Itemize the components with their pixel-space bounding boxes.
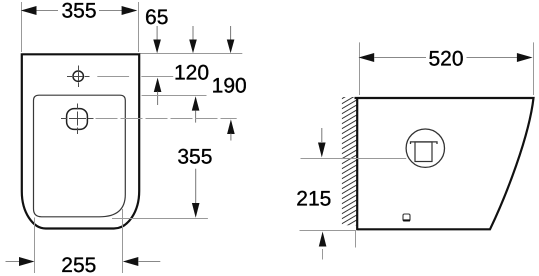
thin line extending right from top edge <box>140 53 243 55</box>
extension line left of 520 <box>359 42 361 95</box>
arrow 520 right <box>517 53 533 62</box>
tap hole circle <box>73 71 83 81</box>
down arrow 190 at top edge <box>230 26 232 41</box>
svg-text:255: 255 <box>61 254 96 276</box>
down arrow 65 at top edge <box>156 26 158 41</box>
svg-text:215: 215 <box>296 188 331 211</box>
leader line 65 level segment a <box>97 76 129 78</box>
svg-text:355: 355 <box>177 146 212 169</box>
bidet body outline front view <box>22 54 139 228</box>
dim line 520 left segment <box>374 57 426 59</box>
svg-text:190: 190 <box>212 75 247 98</box>
drain fitting brim <box>411 142 438 144</box>
tap hole crosshair horizontal <box>67 76 90 78</box>
extension line left of 255 <box>34 218 36 274</box>
dim line 255 right <box>138 261 160 263</box>
arrow 520 left <box>359 53 375 62</box>
extension line right of 255 <box>122 209 124 273</box>
drain hole circle <box>67 109 88 130</box>
up arrow 190 <box>227 119 235 134</box>
down arrow 120 at top edge <box>192 26 194 41</box>
up arrow 215 bottom <box>319 232 327 247</box>
extension line left of 355 top dim <box>21 2 23 52</box>
arrow 255 right (pointing left) <box>123 257 139 266</box>
wall face edge <box>356 97 358 230</box>
side view body outline <box>355 98 534 229</box>
arrow right of 355 top <box>122 6 138 15</box>
up arrow 65 <box>154 78 162 92</box>
leader line bowl bottom level <box>112 218 208 220</box>
down arrow 355v <box>195 169 197 204</box>
dim line 355 top right segment <box>99 10 123 12</box>
svg-text:120: 120 <box>174 62 209 85</box>
leader line drain level <box>301 158 407 160</box>
dim line 355 top left segment <box>36 10 59 12</box>
up arrow 120 <box>192 96 200 110</box>
arrow left of 355 top <box>21 6 37 15</box>
wall hatching <box>338 88 360 241</box>
down arrow 215 top <box>321 128 323 142</box>
drain fitting cup <box>415 142 432 162</box>
fixing bracket symbol <box>403 214 410 221</box>
dim line 520 right segment <box>467 57 518 59</box>
bottom leader line left of wall <box>300 230 357 232</box>
drain circle side view <box>406 129 444 167</box>
inner bowl outline front view <box>34 95 126 217</box>
svg-text:65: 65 <box>145 6 168 29</box>
arrow 255 left (pointing right) <box>19 257 35 266</box>
extension line right of 520 <box>533 42 535 95</box>
dim line 255 left <box>6 261 21 263</box>
extension line right of 355 top dim <box>138 2 140 52</box>
leader line 190 level (drain crosshair horizontal, long) <box>61 118 94 120</box>
short extension below wall <box>355 231 357 248</box>
leader line 120 level <box>142 95 207 97</box>
svg-text:355: 355 <box>61 0 96 23</box>
leader line 65 level segment b <box>141 76 173 78</box>
tap hole crosshair vertical <box>78 66 80 88</box>
drain crosshair vertical <box>77 104 79 135</box>
svg-text:520: 520 <box>428 47 463 70</box>
